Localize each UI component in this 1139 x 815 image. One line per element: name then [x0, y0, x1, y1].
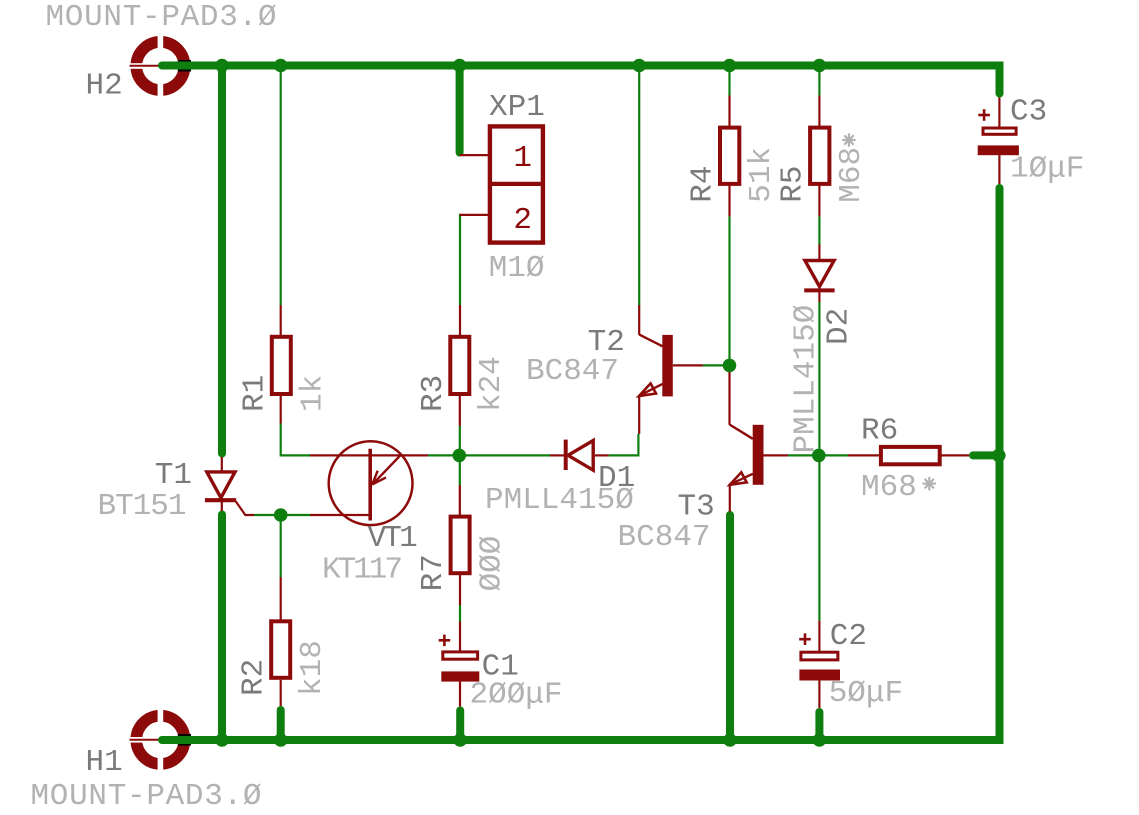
wire R2 bottom stub [277, 710, 285, 740]
junction bottom bus at C2 [813, 733, 827, 747]
svg-text:k24: k24 [474, 356, 509, 412]
svg-text:XP1: XP1 [489, 90, 545, 125]
wire R4 top [728, 66, 730, 96]
capacitor C3 [983, 128, 1016, 134]
svg-text:51k: 51k [744, 147, 779, 203]
wire VCC top bus [162, 66, 1000, 94]
wire node D to VT1 B1 [281, 514, 310, 516]
resistor R3 [450, 337, 469, 394]
svg-text:T1: T1 [155, 458, 192, 493]
svg-text:1: 1 [513, 141, 532, 176]
svg-text:k18: k18 [295, 640, 330, 696]
svg-text:H1: H1 [86, 745, 123, 780]
junction node A [453, 449, 467, 463]
transistor T2 [662, 335, 673, 397]
svg-text:H2: H2 [86, 69, 123, 104]
wire node D to R2 [280, 515, 282, 577]
wire R1 bottom to VT1 emitter [281, 424, 310, 456]
wire T2 base to node B [703, 364, 730, 366]
wire T3 emitter to GND [726, 515, 734, 740]
connector XP1 [490, 126, 543, 242]
wire R4 bottom to node B [728, 216, 730, 365]
resistor R1 pin leads [280, 305, 282, 335]
wire D2 to node C [818, 302, 820, 455]
svg-text:BC847: BC847 [526, 354, 619, 389]
svg-text:1ØμF: 1ØμF [1010, 152, 1084, 187]
resistor R4 [720, 128, 739, 184]
resistor R6 pin leads [848, 454, 879, 456]
wire node C to C2 [818, 455, 820, 620]
junction bottom bus at T3 [723, 733, 737, 747]
wire R5 bottom to D2 [818, 216, 820, 244]
wire GND bottom bus and right bus [162, 188, 1000, 740]
diode D1 [568, 441, 593, 471]
wire node A to D1 [459, 454, 550, 456]
junction top bus at left bus [215, 59, 229, 73]
connector XP1 pin 1 lead [460, 154, 488, 156]
thyristor T1 [207, 472, 235, 498]
connector XP1 pin 2 lead [460, 214, 488, 216]
resistor R6 [881, 447, 940, 464]
wire R1 top [280, 66, 282, 306]
junction top bus at T2 collector [632, 59, 646, 73]
junction top bus at R4 [723, 59, 737, 73]
svg-text:2: 2 [513, 203, 532, 238]
wire C2 minus stub [815, 712, 823, 740]
svg-text:R7: R7 [416, 554, 451, 591]
wire R7 to C1 [459, 605, 461, 622]
capacitor C2 [801, 652, 838, 660]
svg-text:M68: M68 [834, 147, 869, 203]
wire D1 to T2 emitter [609, 434, 639, 455]
svg-text:R4: R4 [686, 165, 721, 202]
resistor R7 [451, 517, 470, 574]
svg-text:5ØμF: 5ØμF [829, 676, 903, 711]
junction bottom bus at R2 [274, 733, 288, 747]
wire left bus upper [218, 63, 226, 454]
junction top bus at R1 [274, 59, 288, 73]
diode D2 [805, 261, 834, 287]
svg-text:MOUNT-PAD3.Ø: MOUNT-PAD3.Ø [46, 0, 278, 35]
junction bottom bus at C1 [453, 733, 467, 747]
svg-text:MOUNT-PAD3.Ø: MOUNT-PAD3.Ø [31, 779, 263, 814]
wire R5 top [818, 66, 820, 96]
junction node R6 right bus [992, 449, 1006, 463]
svg-text:R6: R6 [861, 414, 898, 449]
wire R3 bottom to node A [459, 426, 461, 455]
svg-text:BT151: BT151 [98, 489, 186, 524]
svg-text:C2: C2 [830, 619, 867, 654]
svg-text:R2: R2 [237, 659, 272, 696]
junction node C R6 left [812, 449, 826, 463]
junction node B T2 base [723, 359, 737, 373]
transistor T3 [753, 425, 764, 485]
wire node C to R6 [819, 454, 848, 456]
junction top bus at R5 [813, 59, 827, 73]
wire C1 minus stub [456, 711, 464, 741]
wire T3 base to node C [788, 454, 819, 456]
svg-text:2ØØμF: 2ØØμF [470, 678, 563, 713]
svg-text:VT1: VT1 [368, 521, 418, 556]
transistor VT1 [329, 441, 413, 525]
resistor R3 pin leads [459, 305, 461, 335]
svg-text:PMLL415Ø: PMLL415Ø [485, 483, 634, 518]
svg-text:1k: 1k [296, 375, 331, 412]
svg-text:R1: R1 [237, 375, 272, 412]
resistor R1 [272, 337, 291, 394]
svg-text:M1Ø: M1Ø [489, 251, 545, 286]
resistor R7 pin leads [459, 485, 461, 515]
wire XP1 pin1 stub [456, 63, 464, 153]
resistor R2 pin leads [280, 577, 282, 620]
svg-text:PMLL415Ø: PMLL415Ø [788, 305, 823, 454]
wire T1 gate to node D [254, 514, 281, 516]
resistor R4 pin leads [728, 96, 730, 127]
wire node A to R7 [459, 455, 461, 485]
junction node D gate [274, 508, 288, 522]
wire XP1 pin2 to R3 [459, 214, 461, 305]
svg-text:C3: C3 [1010, 95, 1047, 130]
wire T2 collector from VCC [638, 66, 640, 306]
mount pad H1 [129, 709, 192, 772]
svg-text:D2: D2 [822, 308, 857, 345]
capacitor C1 [443, 652, 478, 659]
junction top bus at XP1 [453, 59, 467, 73]
svg-text:KT117: KT117 [322, 553, 401, 588]
mount pad H2 [129, 35, 192, 98]
svg-text:M68: M68 [861, 470, 917, 505]
resistor R5 [810, 128, 829, 184]
svg-text:BC847: BC847 [618, 520, 711, 555]
wire left bus lower [218, 515, 226, 741]
svg-text:ØØØ: ØØØ [474, 536, 509, 592]
svg-text:R5: R5 [776, 165, 811, 202]
resistor R2 [271, 621, 290, 678]
svg-text:R3: R3 [416, 375, 451, 412]
wire R6 right stub [973, 451, 996, 459]
junction bottom bus at left bus [215, 733, 229, 747]
wire VT1 B2 to node A [428, 454, 459, 456]
resistor R5 pin leads [818, 96, 820, 127]
